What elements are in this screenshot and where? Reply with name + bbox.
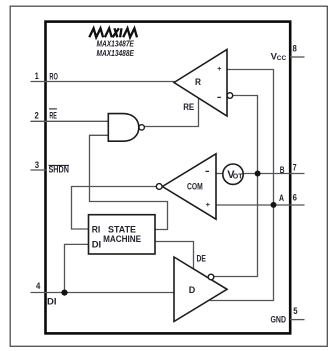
wire GND stub pin5 [290, 319, 305, 321]
junction dot B [255, 171, 261, 177]
NAND gate U1 [108, 114, 139, 142]
svg-text:+: + [217, 64, 222, 73]
wire COM output to RI [72, 187, 157, 230]
wire RO line pin1 [31, 81, 175, 83]
svg-text:RO: RO [49, 71, 58, 82]
svg-text:COM: COM [187, 182, 203, 193]
wire RE line pin2 [31, 120, 109, 122]
MAXIM logo [89, 28, 137, 37]
svg-text:R: R [195, 77, 201, 88]
svg-text:A: A [279, 193, 284, 204]
op-amp COM [162, 154, 216, 219]
wire DE from state machine to driver [155, 242, 194, 269]
svg-text:OT: OT [233, 174, 243, 181]
wire NAND output to R enable [144, 98, 198, 126]
wire Vcc stub pin8 [290, 56, 305, 58]
wire SHDN stub pin3 [31, 169, 47, 171]
svg-text:DI: DI [92, 240, 102, 251]
svg-text:7: 7 [293, 162, 297, 173]
svg-text:B: B [280, 165, 285, 176]
svg-text:8: 8 [293, 43, 297, 54]
svg-text:MACHINE: MACHINE [103, 234, 141, 245]
NAND output bubble [139, 125, 144, 130]
svg-text:1: 1 [35, 71, 40, 82]
svg-text:MAX13487E: MAX13487E [97, 39, 135, 48]
voltage source VOT [223, 164, 243, 184]
COM output bubble [156, 184, 162, 190]
svg-text:2: 2 [35, 111, 39, 122]
wire B line to VOT [216, 173, 223, 175]
wire state machine to NAND input [90, 135, 168, 229]
wire B line pin7 [243, 173, 304, 175]
wire A line pin6 [216, 204, 305, 206]
svg-text:DE: DE [197, 254, 206, 265]
svg-text:RE: RE [49, 111, 57, 122]
driver inverted output bubble [208, 274, 214, 280]
state machine block [89, 215, 156, 254]
wire DI branch to state machine [65, 244, 89, 292]
driver D [174, 257, 227, 322]
device inner box [46, 22, 291, 334]
svg-text:3: 3 [35, 160, 39, 171]
wire B net: R- down through B dot to driver bubble [214, 96, 258, 277]
svg-text:D: D [189, 285, 196, 296]
op-amp R receiver [174, 50, 227, 117]
svg-text:4: 4 [36, 281, 41, 292]
svg-text:GND: GND [271, 314, 287, 325]
svg-text:RI: RI [92, 225, 101, 236]
svg-text:RE: RE [183, 102, 194, 113]
junction dot DI [61, 290, 67, 296]
junction dot A [271, 202, 277, 208]
wire A net: R+ down through A dot to driver tap [210, 70, 274, 301]
svg-text:+: + [206, 200, 211, 209]
svg-text:CC: CC [277, 55, 287, 62]
svg-text:5: 5 [293, 306, 298, 317]
wire DI line pin4 [31, 292, 175, 294]
svg-text:DI: DI [47, 296, 57, 307]
svg-text:6: 6 [293, 193, 297, 204]
svg-text:MAX13488E: MAX13488E [97, 49, 135, 58]
R inverting input bubble [227, 93, 233, 99]
